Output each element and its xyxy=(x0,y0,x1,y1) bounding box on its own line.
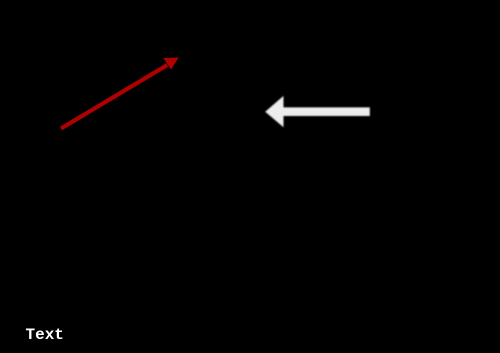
text label xyxy=(26,327,64,343)
red arrow head xyxy=(163,58,179,70)
red arrow shaft xyxy=(61,65,167,129)
white block arrow pointing left xyxy=(265,96,370,127)
